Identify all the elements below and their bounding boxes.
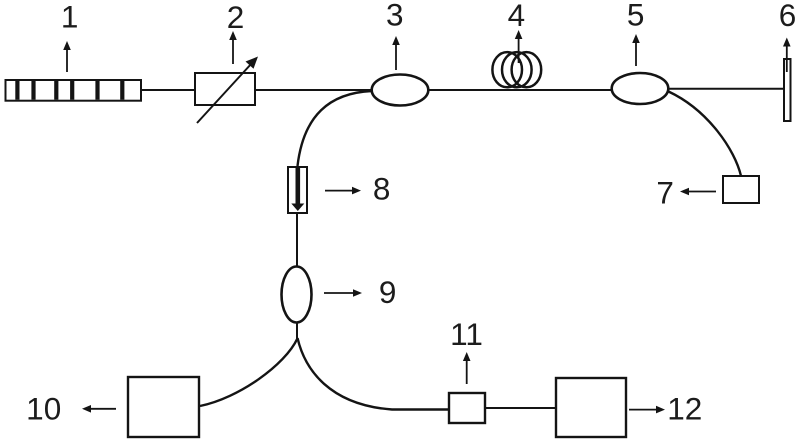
wire split-11 (curved branch) xyxy=(298,338,450,410)
wire split-10 (curved branch) xyxy=(200,339,297,407)
component 10 (instrument box) xyxy=(128,377,199,437)
label 4 arrow xyxy=(515,30,523,63)
svg-text:9: 9 xyxy=(379,274,397,310)
component 6 (mirror) xyxy=(784,59,791,121)
component 1 (segmented pulsed source / FBG) xyxy=(6,80,142,101)
svg-text:11: 11 xyxy=(450,316,483,352)
svg-text:3: 3 xyxy=(386,0,404,33)
label 10 arrow xyxy=(82,405,116,413)
component 4 (fiber coil) xyxy=(492,52,541,87)
label 8 arrow xyxy=(325,187,361,195)
component 9 (polarization controller ellipse) xyxy=(282,267,312,323)
label 7 arrow xyxy=(680,188,716,196)
component 7 (detector box) xyxy=(723,176,759,203)
svg-text:7: 7 xyxy=(656,174,674,210)
svg-text:2: 2 xyxy=(227,0,245,35)
wire 2-3 xyxy=(255,89,373,91)
label 6 arrow xyxy=(783,38,791,73)
label 9 arrow xyxy=(324,289,362,297)
svg-text:5: 5 xyxy=(627,0,645,32)
label 1 arrow xyxy=(63,41,71,72)
svg-text:10: 10 xyxy=(26,391,61,427)
wire 8-9 xyxy=(296,213,298,267)
wire 9-split xyxy=(296,323,298,340)
label 3 arrow xyxy=(392,36,400,70)
label 5 arrow xyxy=(632,34,640,66)
svg-text:6: 6 xyxy=(779,0,797,33)
component 5 (coupler ellipse) xyxy=(612,73,669,104)
wire 5-7 (curved branch) xyxy=(669,92,742,177)
label 12 arrow xyxy=(629,406,665,414)
component 12 (instrument box) xyxy=(556,378,626,437)
wire 1-2 xyxy=(141,89,195,91)
component 3 (coupler ellipse) xyxy=(372,75,429,106)
component 8 (isolator) xyxy=(288,167,307,213)
svg-text:8: 8 xyxy=(373,171,391,207)
svg-text:4: 4 xyxy=(508,0,526,33)
wire 11-12 xyxy=(485,407,556,409)
label 2 arrow xyxy=(229,31,237,64)
wire 3-8 (curved branch) xyxy=(298,91,372,166)
wire 3-5 (under coil) xyxy=(428,89,612,91)
component 11 (modulator box) xyxy=(449,393,485,423)
component 2 (variable attenuator) xyxy=(195,57,258,124)
svg-text:12: 12 xyxy=(667,390,702,426)
wire 5-6 xyxy=(668,88,784,90)
svg-text:1: 1 xyxy=(61,0,79,34)
label 11 arrow xyxy=(463,352,471,384)
